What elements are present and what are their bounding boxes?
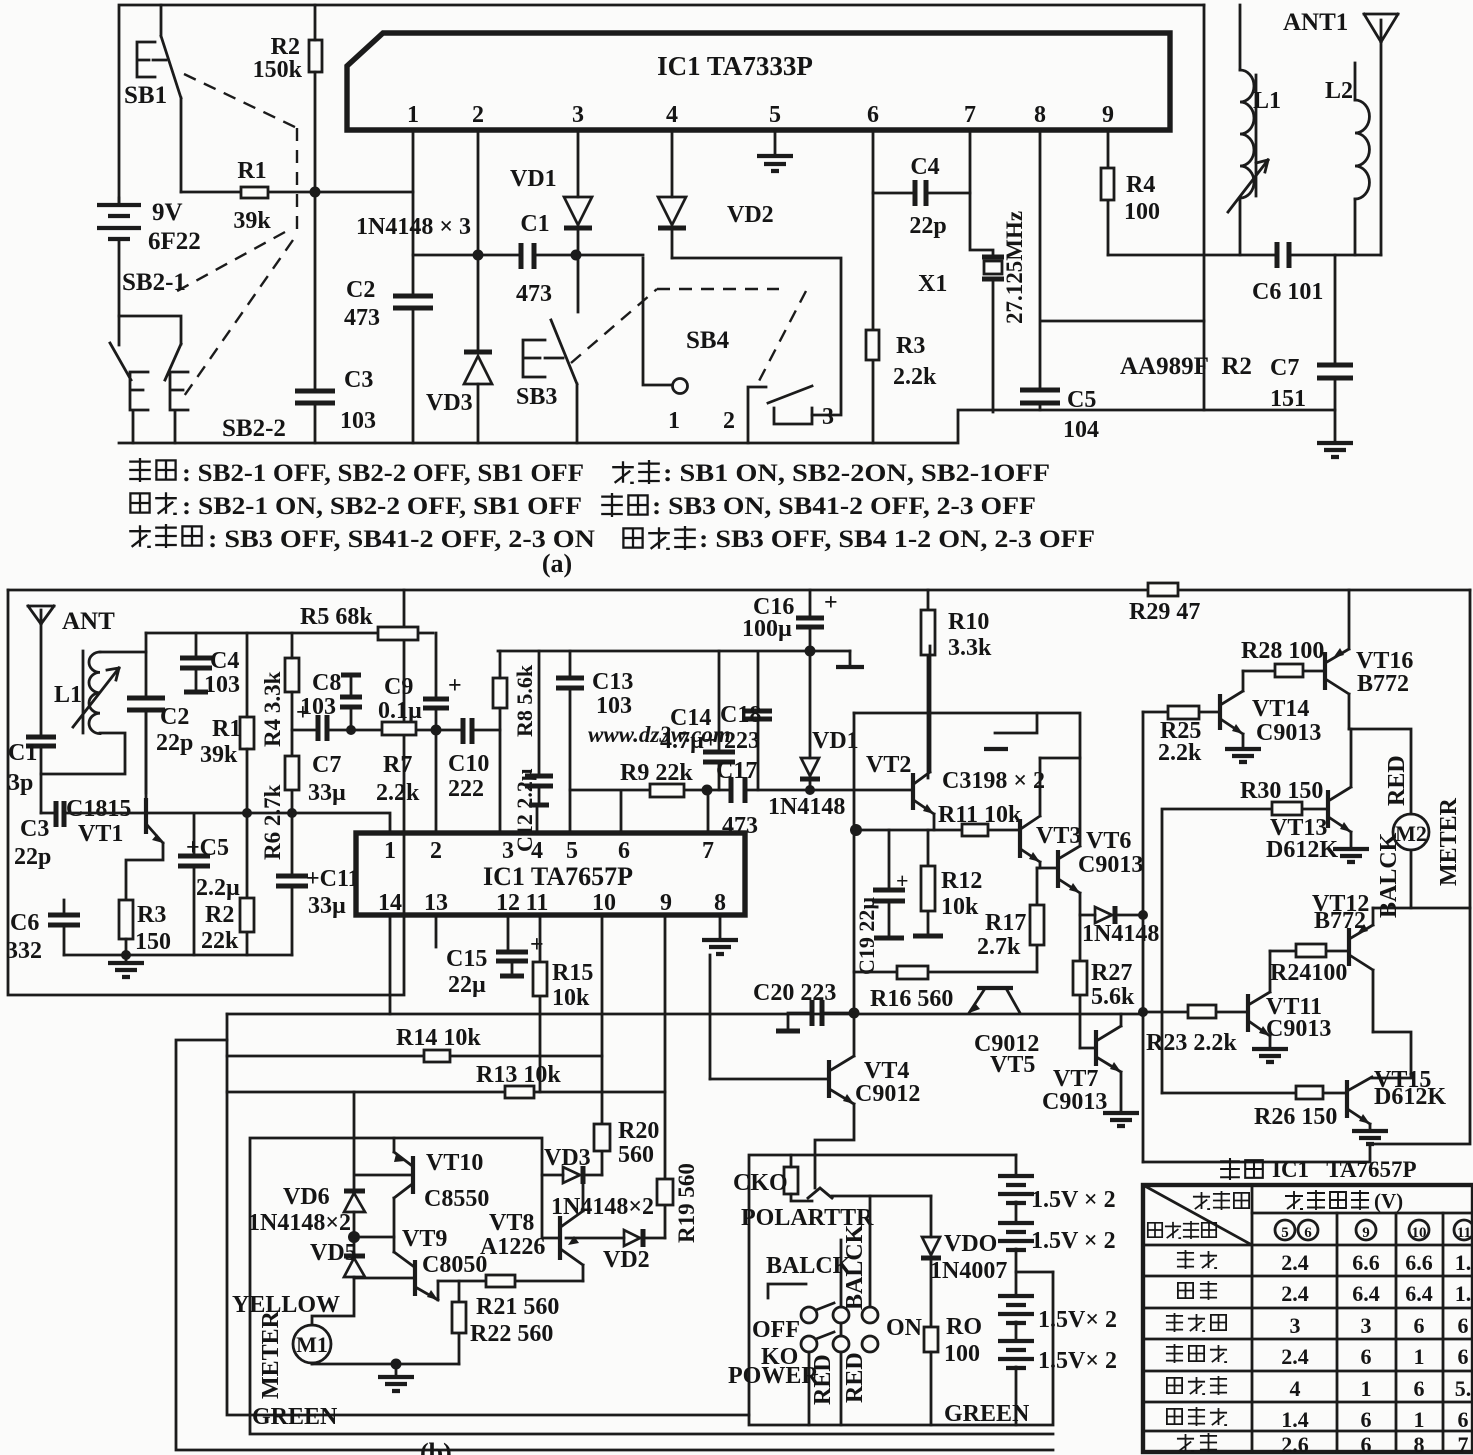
svg-text:6: 6 — [867, 102, 879, 128]
wire base row rf — [41, 813, 390, 833]
pin4 stub — [536, 805, 539, 833]
svg-text:9: 9 — [660, 890, 672, 916]
svg-text:IC1 TA7657P: IC1 TA7657P — [483, 862, 633, 891]
svg-text:1: 1 — [1414, 1344, 1425, 1369]
svg-text:6: 6 — [1361, 1432, 1372, 1455]
switch SB3 — [523, 340, 563, 377]
svg-text:AA989F R2: AA989F R2 — [1120, 353, 1252, 380]
svg-text:22µ: 22µ — [448, 972, 486, 998]
svg-text:C15: C15 — [446, 946, 487, 972]
header circled 9 — [1356, 1220, 1376, 1240]
svg-text:150k: 150k — [253, 57, 303, 83]
svg-text:R14 10k: R14 10k — [396, 1025, 481, 1051]
transistor VT10 C8550 — [411, 1156, 415, 1194]
diode VD6 — [353, 1092, 356, 1255]
svg-text:10: 10 — [592, 890, 616, 916]
svg-text:C8: C8 — [312, 670, 341, 696]
wire R7 row — [292, 729, 500, 732]
wire top border section b with R29 — [8, 589, 1470, 592]
svg-text:473: 473 — [516, 281, 552, 307]
svg-text:104: 104 — [1063, 417, 1099, 443]
svg-text:12: 12 — [496, 890, 520, 916]
svg-text:C5: C5 — [1067, 387, 1096, 413]
motor M2 — [1393, 814, 1429, 850]
svg-text:C20 223: C20 223 — [753, 980, 836, 1006]
svg-text:2: 2 — [430, 838, 442, 864]
node R7 left — [346, 725, 356, 735]
svg-text:6: 6 — [1304, 1225, 1312, 1241]
svg-text:+: + — [530, 932, 544, 958]
svg-text:C9013: C9013 — [1256, 720, 1321, 746]
svg-text:: SB1 ON, SB2-2ON, SB2-1OFF: : SB1 ON, SB2-2ON, SB2-1OFF — [663, 460, 1050, 487]
svg-text:SB2-2: SB2-2 — [222, 415, 286, 442]
svg-text:R26 150: R26 150 — [1254, 1104, 1337, 1130]
wire pin14 column — [389, 915, 392, 1014]
svg-text:VD3: VD3 — [426, 390, 473, 416]
coil L1 — [1239, 5, 1242, 70]
resistor R14 10k — [424, 1050, 450, 1062]
svg-text:R4 3.3k: R4 3.3k — [260, 671, 285, 747]
wire pin6 column — [872, 130, 875, 443]
svg-text:+C5: +C5 — [186, 835, 229, 861]
svg-text:R1: R1 — [237, 158, 266, 184]
capacitor C11 33u — [276, 876, 308, 886]
svg-text:ON: ON — [886, 1315, 923, 1341]
resistor R22 560 — [458, 1281, 461, 1364]
wire 1N4148 row — [413, 254, 643, 257]
svg-text:7: 7 — [964, 102, 976, 128]
svg-text:B772: B772 — [1357, 671, 1409, 697]
svg-text:C6 101: C6 101 — [1252, 279, 1323, 305]
svg-text:SB3: SB3 — [516, 384, 557, 410]
svg-text:C8550: C8550 — [424, 1186, 489, 1212]
wire pin9/R19 column — [664, 915, 667, 1238]
svg-text:222: 222 — [448, 776, 484, 802]
node pin2 — [473, 250, 484, 261]
wire top border section a — [119, 5, 1204, 205]
switch SB1 — [161, 5, 181, 192]
svg-text:C6: C6 — [10, 910, 39, 936]
resistor R23 2.2k — [1143, 1011, 1248, 1014]
svg-text:1.5V × 2: 1.5V × 2 — [1031, 1187, 1116, 1213]
svg-text:1N4007: 1N4007 — [930, 1258, 1007, 1284]
resistor R25 2.2k — [1143, 711, 1220, 714]
svg-text:R13 10k: R13 10k — [476, 1062, 561, 1088]
capacitor C2 22p — [145, 633, 148, 793]
wire block frame — [227, 1014, 1053, 1434]
resistor R6 2.7k rf — [285, 756, 299, 790]
transistor VT1 C1815 — [144, 798, 148, 834]
wire M1 bottom row — [312, 1363, 459, 1366]
svg-text:R12: R12 — [941, 868, 982, 894]
svg-text:1.: 1. — [1455, 1250, 1472, 1275]
svg-text:2.2µ: 2.2µ — [196, 875, 240, 901]
svg-text:A1226: A1226 — [480, 1234, 545, 1260]
resistor R17 2.7k — [1036, 868, 1039, 972]
svg-text:3: 3 — [822, 404, 834, 430]
label text line 1 — [129, 458, 151, 482]
resistor R20 560 — [594, 1124, 610, 1151]
svg-text:R22 560: R22 560 — [470, 1321, 553, 1347]
svg-text:BALCK: BALCK — [1376, 832, 1402, 918]
capacitor C20 223 — [812, 1000, 822, 1026]
svg-text:SB4: SB4 — [686, 327, 730, 354]
svg-text:27.125MHz: 27.125MHz — [1002, 211, 1027, 324]
svg-text:R23 2.2k: R23 2.2k — [1146, 1030, 1237, 1056]
svg-text:VD2: VD2 — [603, 1247, 650, 1273]
svg-text:2: 2 — [723, 408, 735, 434]
header circled 10 — [1409, 1220, 1429, 1240]
svg-text:VT10: VT10 — [426, 1150, 483, 1176]
wire R21 row — [438, 1280, 583, 1283]
wire long supply mid column — [853, 713, 856, 1013]
svg-text:R29 47: R29 47 — [1129, 599, 1200, 625]
svg-text:2.6: 2.6 — [1281, 1432, 1309, 1455]
capacitor C16 100u — [809, 590, 812, 651]
svg-text:22p: 22p — [156, 730, 193, 756]
svg-text:www.dz3w.com: www.dz3w.com — [588, 722, 731, 747]
resistor R2 22k rf — [240, 898, 254, 932]
resistor R12 10k — [927, 830, 930, 935]
svg-text:VT14: VT14 — [1252, 696, 1309, 722]
svg-text:VD2: VD2 — [727, 202, 774, 228]
ground hook right of C16 — [849, 651, 852, 666]
svg-text:6: 6 — [1458, 1313, 1469, 1338]
resistor R29 47 — [1148, 583, 1178, 596]
transistor VT15 D612K — [1345, 1080, 1349, 1118]
svg-text:METER: METER — [1436, 797, 1462, 886]
diode VD2 — [671, 130, 674, 258]
resistor R4 3.3k rf — [285, 658, 299, 692]
wire R11 row — [854, 829, 1020, 832]
svg-text:14: 14 — [378, 890, 402, 916]
svg-text:6.6: 6.6 — [1352, 1250, 1380, 1275]
svg-text:6: 6 — [1361, 1407, 1372, 1432]
svg-text:9V: 9V — [152, 199, 183, 226]
switch POLARTTR arm — [808, 1188, 931, 1198]
svg-text:C4: C4 — [910, 154, 939, 180]
svg-text:C1: C1 — [8, 740, 37, 766]
svg-text:22k: 22k — [201, 928, 239, 954]
svg-text:R28 100: R28 100 — [1241, 638, 1324, 664]
svg-text:1.5V × 2: 1.5V × 2 — [1031, 1228, 1116, 1254]
diode 1N4148 vt6 — [1080, 914, 1143, 917]
crystal X1 27.125MHz — [970, 130, 993, 412]
svg-text:7: 7 — [1458, 1432, 1469, 1455]
wire pin10/R20 column — [601, 915, 604, 1175]
svg-text:1N4148×2: 1N4148×2 — [551, 1194, 654, 1220]
resistor R3 150 rf — [119, 900, 133, 939]
svg-text:VDO: VDO — [944, 1231, 997, 1257]
table frame — [1143, 1185, 1473, 1452]
svg-text:R11 10k: R11 10k — [938, 802, 1022, 828]
svg-text:C10: C10 — [448, 751, 489, 777]
svg-text:R1: R1 — [212, 716, 241, 742]
svg-text:VD5: VD5 — [310, 1240, 357, 1266]
battery stack upper — [1015, 1155, 1018, 1425]
svg-text:L1: L1 — [1253, 88, 1281, 114]
svg-text:: SB2-1 ON, SB2-2 OFF, SB1 OFF: : SB2-1 ON, SB2-2 OFF, SB1 OFF — [182, 493, 582, 520]
svg-text:2.2k: 2.2k — [893, 364, 937, 390]
dashed gang link SB1 — [170, 74, 297, 399]
diode VD3 b — [542, 1174, 602, 1177]
ground pin5 — [774, 130, 777, 155]
ground M1 row — [395, 1364, 398, 1376]
svg-text:100µ: 100µ — [742, 616, 792, 642]
capacitor C3 103 — [295, 391, 335, 403]
svg-text:9: 9 — [1362, 1225, 1370, 1241]
resistor R10 3.3k — [927, 590, 930, 778]
svg-text:5: 5 — [1281, 1225, 1289, 1241]
capacitor C4 103 rf — [195, 633, 198, 692]
svg-text:1.4: 1.4 — [1281, 1407, 1309, 1432]
transistor VT8 A1226 — [558, 1216, 562, 1260]
capacitor C17 473 — [708, 790, 913, 833]
svg-text:103: 103 — [204, 672, 240, 698]
svg-text:6.4: 6.4 — [1405, 1281, 1433, 1306]
svg-text:9: 9 — [1102, 102, 1114, 128]
svg-text:D612K: D612K — [1266, 837, 1338, 863]
svg-text:VT6: VT6 — [1086, 828, 1131, 854]
capacitor C19 22u — [888, 830, 891, 938]
capacitor C2 473 — [393, 296, 433, 308]
resistor R24 100 — [1270, 950, 1349, 953]
transistor VT7 C9013 — [1094, 1030, 1098, 1066]
coil L2 — [1354, 63, 1357, 100]
header pin number — [1193, 1192, 1210, 1209]
capacitor C3 22p rf — [56, 801, 64, 827]
wire C6 row — [1108, 254, 1381, 257]
ground rf — [125, 955, 128, 962]
wire R13 row — [227, 1091, 665, 1094]
wire outer left column — [176, 1040, 1053, 1450]
label text line 2 — [130, 493, 149, 512]
svg-text:10k: 10k — [941, 894, 979, 920]
diode VD1 1N4148 — [809, 653, 812, 790]
wire supply rail 648 — [498, 650, 850, 653]
resistor R21 560 — [486, 1275, 515, 1287]
wire VT3/VT6 collectors — [1040, 757, 1080, 760]
capacitor C6 332 rf — [48, 915, 80, 925]
svg-text:VT9: VT9 — [402, 1226, 447, 1252]
svg-text:C7: C7 — [312, 752, 341, 778]
row 3 fwd-left — [1166, 1313, 1183, 1332]
svg-text:R2: R2 — [205, 902, 234, 928]
svg-text:22p: 22p — [909, 213, 946, 239]
svg-text:L2: L2 — [1325, 78, 1353, 104]
svg-text:103: 103 — [340, 408, 376, 434]
wire left column right block — [1142, 712, 1145, 1162]
resistor R5 68k — [378, 627, 418, 640]
svg-text:5: 5 — [769, 102, 781, 128]
svg-text:+C11: +C11 — [306, 866, 360, 892]
row 2 reverse — [1178, 1283, 1193, 1298]
svg-text:BALCK: BALCK — [766, 1253, 852, 1279]
svg-text:GREEN: GREEN — [944, 1401, 1030, 1427]
pin13 stub — [435, 915, 438, 947]
diode VD3 — [477, 255, 480, 443]
svg-text:2.7k: 2.7k — [977, 934, 1021, 960]
wire SB4 pole1 — [643, 258, 671, 385]
capacitor C7 33u b — [318, 715, 327, 741]
capacitor C9 0.1u — [423, 699, 449, 708]
node junction R1/R2 — [310, 187, 321, 198]
svg-text:RED: RED — [842, 1352, 868, 1403]
transistor VT16 B772 — [1323, 652, 1327, 690]
svg-text:100: 100 — [1124, 199, 1160, 225]
resistor R15 10k — [539, 915, 542, 1092]
svg-text:POWER: POWER — [728, 1363, 819, 1389]
wire pin7 feed column — [709, 955, 712, 1079]
resistor R28 100 — [1243, 670, 1325, 673]
svg-text:100: 100 — [944, 1341, 980, 1367]
svg-text:8: 8 — [1034, 102, 1046, 128]
transistor VT11 C9013 — [1246, 994, 1250, 1032]
coil L1 rf — [82, 651, 85, 733]
svg-text:10k: 10k — [552, 985, 590, 1011]
capacitor C18 223 — [757, 653, 760, 790]
svg-text:1N4148×2: 1N4148×2 — [248, 1210, 351, 1236]
svg-text:SB1: SB1 — [124, 82, 167, 109]
wire right vertical from top border — [1203, 5, 1206, 410]
svg-text:B772: B772 — [1314, 908, 1366, 934]
svg-text:C9013: C9013 — [1042, 1089, 1107, 1115]
wire power block frame — [749, 1155, 1053, 1425]
transistor VT2 — [911, 773, 915, 810]
svg-text:R24100: R24100 — [1270, 960, 1347, 986]
wire pin2 stub — [435, 728, 438, 833]
svg-text:6F22: 6F22 — [148, 228, 201, 255]
capacitor C4 22p — [873, 192, 970, 195]
svg-text:1: 1 — [1414, 1407, 1425, 1432]
svg-text:C1815: C1815 — [66, 796, 131, 822]
svg-text:C9013: C9013 — [1078, 852, 1143, 878]
svg-text:L1: L1 — [54, 682, 82, 708]
node pin3 — [571, 250, 582, 261]
transistor VT5 C9012 — [977, 986, 1013, 990]
svg-text:2: 2 — [472, 102, 484, 128]
resistor R30 150 — [1162, 809, 1328, 1093]
svg-text:5: 5 — [566, 838, 578, 864]
svg-text:C2: C2 — [160, 704, 189, 730]
svg-text:R5 68k: R5 68k — [300, 604, 373, 630]
svg-text:103: 103 — [300, 694, 336, 720]
ground bottom right — [1317, 443, 1353, 457]
svg-text:4: 4 — [531, 838, 543, 864]
svg-text:R27: R27 — [1091, 960, 1132, 986]
resistor R26 150 — [1162, 1092, 1347, 1095]
svg-text:6: 6 — [618, 838, 630, 864]
capacitor C15 22u — [508, 915, 512, 976]
svg-text:332: 332 — [6, 938, 42, 964]
resistor R16 560 — [897, 966, 928, 979]
wire bottom border section a — [119, 410, 1335, 443]
diode VD1 — [577, 130, 580, 312]
capacitor C7 151 — [1334, 255, 1337, 443]
svg-text:C19 22µ: C19 22µ — [854, 897, 879, 975]
svg-text:39k: 39k — [200, 742, 238, 768]
svg-text:R4: R4 — [1126, 172, 1155, 198]
svg-text:3: 3 — [572, 102, 584, 128]
switch contacts power — [801, 1307, 817, 1323]
svg-text:3.3k: 3.3k — [948, 635, 992, 661]
svg-text:VT5: VT5 — [990, 1052, 1035, 1078]
svg-text:2.4: 2.4 — [1281, 1281, 1309, 1306]
wire VT12 collector to VT15 — [1372, 1032, 1411, 1078]
table title — [1220, 1158, 1240, 1180]
wire emitter rail rf — [64, 954, 292, 957]
svg-text:C9013: C9013 — [1266, 1016, 1331, 1042]
capacitor C10 222 — [463, 718, 472, 744]
svg-text:R16 560: R16 560 — [870, 986, 953, 1012]
svg-text:C3: C3 — [20, 816, 49, 842]
transistor VT13 D612K — [1326, 790, 1330, 828]
svg-text:33µ: 33µ — [308, 893, 346, 919]
svg-text:ANT1: ANT1 — [1283, 9, 1348, 36]
header run state — [1148, 1223, 1162, 1237]
capacitor C12 — [538, 651, 541, 805]
svg-text:R8 5.6k: R8 5.6k — [512, 664, 537, 737]
svg-text:1N4148 × 3: 1N4148 × 3 — [356, 214, 471, 240]
node VD5/VD6 — [348, 1231, 360, 1243]
svg-text:: SB3 OFF, SB4 1-2 ON, 2-3 OFF: : SB3 OFF, SB4 1-2 ON, 2-3 OFF — [699, 526, 1095, 553]
svg-text:8: 8 — [714, 890, 726, 916]
transistor VT3 — [1018, 819, 1022, 858]
svg-text:1.5V× 2: 1.5V× 2 — [1038, 1348, 1117, 1374]
wire battery tap — [1016, 1271, 1053, 1274]
svg-text:6: 6 — [1414, 1376, 1425, 1401]
svg-text:: SB3 OFF, SB41-2 OFF, 2-3 ON: : SB3 OFF, SB41-2 OFF, 2-3 ON — [208, 526, 595, 553]
svg-text:2.2k: 2.2k — [376, 780, 420, 806]
svg-text:103: 103 — [596, 693, 632, 719]
svg-text:6: 6 — [1361, 1344, 1372, 1369]
svg-text:IC1 TA7657P: IC1 TA7657P — [1272, 1157, 1417, 1182]
ground pin8 — [719, 915, 722, 938]
svg-text:(b): (b) — [420, 1438, 452, 1455]
row 7 stop — [1177, 1434, 1194, 1451]
svg-text:560: 560 — [618, 1142, 654, 1168]
wire right border — [1143, 590, 1470, 1162]
capacitor C5 2.2u — [193, 814, 196, 955]
transistor VT6 C9013 — [1056, 850, 1060, 888]
resistor R1 39k — [241, 187, 268, 198]
svg-text:8: 8 — [1414, 1432, 1425, 1455]
svg-text:11: 11 — [1457, 1225, 1471, 1241]
battery stack lower — [998, 1296, 1034, 1323]
resistor R3 2.2k — [866, 330, 879, 360]
header pin voltage — [1285, 1191, 1303, 1209]
svg-text:RO: RO — [946, 1314, 982, 1340]
svg-text:RED: RED — [1384, 755, 1410, 806]
resistor R11 10k — [962, 824, 988, 836]
svg-text:6: 6 — [1414, 1313, 1425, 1338]
antenna ANT1 — [1364, 14, 1398, 255]
svg-text:R20: R20 — [618, 1118, 659, 1144]
svg-text:473: 473 — [344, 305, 380, 331]
IC1 TA7333P — [347, 33, 1170, 130]
svg-text:6: 6 — [1458, 1344, 1469, 1369]
wire R1 row — [181, 191, 413, 194]
svg-text:4: 4 — [1290, 1376, 1301, 1401]
svg-text:151: 151 — [1270, 386, 1306, 412]
svg-text:C13: C13 — [592, 669, 633, 695]
diode VDO 1N4007 — [930, 1196, 933, 1327]
resistor R27 5.6k — [1079, 915, 1082, 1048]
wire VD2 to SB4 — [672, 258, 841, 415]
svg-text:VD1: VD1 — [510, 166, 557, 192]
svg-text:ANT: ANT — [62, 608, 115, 635]
svg-text:C3198 × 2: C3198 × 2 — [942, 768, 1045, 794]
